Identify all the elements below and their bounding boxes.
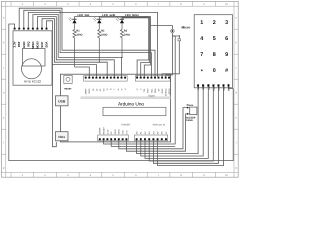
analog header pins — [136, 138, 167, 140]
power header pins — [99, 138, 128, 140]
power header — [98, 135, 129, 141]
svg-text:POWER: POWER — [121, 124, 130, 127]
digital header left pins — [85, 77, 126, 79]
reset button — [64, 75, 73, 90]
digital header right pins — [136, 77, 170, 79]
USB connector — [56, 96, 69, 106]
wire micro feed — [151, 16, 173, 29]
svg-text:100Ω: 100Ω — [76, 33, 82, 36]
resistor R3 — [120, 23, 123, 57]
digital header left — [84, 76, 128, 82]
wire keypad col2 — [141, 86, 203, 156]
svg-text:RST: RST — [17, 41, 21, 47]
svg-text:VIN: VIN — [122, 130, 125, 134]
svg-text:MOSI: MOSI — [168, 88, 171, 94]
svg-text:7: 7 — [200, 52, 203, 58]
svg-text:SCK/13: SCK/13 — [165, 88, 168, 96]
frame ruler lines — [1, 1, 238, 177]
svg-text:RESET: RESET — [64, 87, 72, 90]
wire LED1 anode rail — [75, 15, 151, 17]
wire piezo minus — [126, 114, 186, 151]
right ruler ticks — [234, 28, 238, 30]
svg-text:GND: GND — [88, 88, 91, 93]
wire RFID RST — [19, 8, 155, 77]
svg-text:GND: GND — [22, 42, 26, 48]
svg-text:IRQ: IRQ — [26, 41, 30, 47]
svg-text:RESET: RESET — [103, 126, 106, 134]
svg-text:ANALOG IN: ANALOG IN — [152, 124, 165, 127]
svg-text:GND: GND — [118, 129, 121, 134]
piezo buzzer PZ1 — [186, 104, 197, 122]
RFID antenna coil — [22, 59, 42, 79]
resistor R2 — [98, 23, 101, 62]
keypad pin labels — [196, 84, 230, 91]
LED D2 LED_gelb branch — [93, 13, 115, 23]
svg-text:5: 5 — [213, 36, 216, 42]
frame ruler labels — [3, 3, 238, 177]
svg-text:GND: GND — [161, 88, 164, 93]
svg-text:GND: GND — [114, 129, 117, 134]
wire rail drop to pin D12 — [141, 17, 150, 77]
bottom ruler ticks — [10, 172, 12, 177]
svg-text:3.3V: 3.3V — [106, 129, 109, 134]
svg-text:100Ω: 100Ω — [101, 33, 107, 36]
wire rail drop to pin D13 — [137, 18, 149, 77]
wire micro terminal A down — [166, 36, 173, 77]
wire RFID MOSI — [37, 17, 114, 77]
wire RFID IRQ — [28, 12, 157, 76]
svg-text:100Ω: 100Ω — [124, 33, 130, 36]
resistor R1 — [73, 23, 76, 67]
LED D3 LED_Gr&#252;n branch — [116, 13, 139, 23]
svg-text:RFID RC522: RFID RC522 — [24, 79, 42, 83]
svg-text:100Hz: 100Hz — [186, 119, 193, 122]
wire LED2 anode rail — [99, 16, 149, 18]
wire RFID GND — [24, 10, 152, 77]
RFID chip rect — [23, 49, 46, 67]
svg-text:Micro: Micro — [182, 25, 191, 29]
wire keypad row3 — [158, 86, 224, 165]
wire netz loop under board — [53, 65, 57, 147]
wire micro terminal B to header — [162, 41, 179, 77]
digital header left pin labels — [85, 88, 127, 95]
svg-text:AREF: AREF — [85, 88, 88, 94]
Arduino Uno board — [61, 74, 171, 142]
wire rail drop to pin D11 — [144, 26, 150, 77]
svg-text:SCK: SCK — [40, 41, 44, 48]
svg-text:BUZZER: BUZZER — [186, 116, 196, 119]
top ruler ticks — [33, 1, 35, 6]
LED D1 LED_Rot branch — [68, 13, 89, 23]
wire power pin to micro riser — [111, 140, 175, 146]
svg-text:6: 6 — [225, 36, 228, 42]
RFID module U1 body — [13, 31, 52, 85]
wire micro terminal A — [172, 33, 179, 39]
svg-text:N.C: N.C — [125, 130, 128, 134]
wire RFID SCK — [42, 19, 107, 77]
digital header right — [135, 76, 170, 82]
svg-text:IOREF: IOREF — [99, 127, 102, 134]
svg-text:9: 9 — [225, 52, 228, 58]
svg-text:3.3V: 3.3V — [13, 41, 17, 47]
svg-text:Arduino Uno: Arduino Uno — [118, 101, 144, 106]
svg-text:3: 3 — [225, 20, 228, 26]
analog header pin labels — [136, 131, 168, 134]
node LED3 junction — [121, 57, 122, 58]
analog header — [134, 135, 167, 141]
Arduino inner divider — [81, 96, 171, 99]
digital header right pin labels — [136, 88, 171, 96]
svg-text:0: 0 — [213, 68, 216, 74]
svg-text:SDA: SDA — [154, 88, 157, 93]
wire micro junction link — [172, 35, 175, 37]
keypad KP1 body — [194, 15, 232, 88]
left ruler ticks — [1, 28, 5, 30]
svg-text:#: # — [225, 68, 228, 74]
frame outer border — [1, 1, 238, 177]
wire keypad pin7 jog to loop riser — [229, 86, 234, 88]
RFID pins — [14, 28, 48, 30]
keypad digits — [200, 20, 228, 75]
wire keypad row1 — [149, 86, 213, 161]
svg-text:2: 2 — [213, 20, 216, 26]
wire micro vertical to power header — [104, 36, 176, 144]
svg-text:MISO: MISO — [31, 41, 35, 49]
svg-text:Digital: Digital — [148, 95, 155, 98]
svg-text:1: 1 — [200, 20, 203, 26]
svg-text:Netz: Netz — [58, 135, 65, 139]
wire keypad row2 — [153, 86, 218, 163]
wire keypad col3 — [145, 86, 208, 158]
keypad pins — [197, 85, 229, 87]
svg-text:Piezo: Piezo — [187, 104, 194, 107]
wire RFID 3.3V loop left-bottom-right — [9, 24, 233, 161]
svg-text:USB: USB — [58, 99, 66, 103]
wire piezo plus — [119, 108, 187, 149]
wire keypad col1 — [137, 86, 199, 153]
wire RFID MISO — [33, 15, 122, 77]
wire RFID SDA — [47, 21, 97, 77]
wire LED1 cathode to header — [75, 67, 90, 77]
microphone MK1 — [171, 25, 191, 40]
power header pin labels — [99, 126, 129, 134]
Arduino Uno label box — [103, 107, 166, 115]
svg-text:MOSI: MOSI — [35, 41, 39, 49]
Netz power connector — [56, 132, 69, 141]
svg-text:8: 8 — [213, 52, 216, 58]
RFID pin labels — [13, 41, 49, 49]
svg-text:SDA: SDA — [45, 41, 49, 48]
svg-text:4: 4 — [200, 36, 203, 42]
node LED2 junction — [99, 62, 100, 63]
wire LED3 anode rail — [122, 17, 149, 19]
